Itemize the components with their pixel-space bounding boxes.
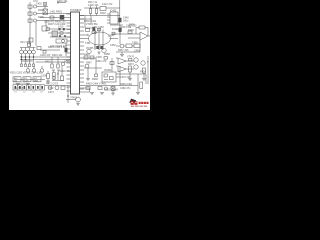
svg-text:C421 472: C421 472 bbox=[102, 3, 113, 6]
svg-text:T492: T492 bbox=[48, 87, 54, 90]
svg-text:R480 C481: R480 C481 bbox=[120, 83, 133, 86]
svg-text:L452 C453: L452 C453 bbox=[92, 26, 104, 29]
svg-text:C473: C473 bbox=[48, 91, 54, 94]
svg-text:R421: R421 bbox=[45, 61, 51, 64]
svg-text:R456: R456 bbox=[129, 24, 135, 27]
svg-text:R463 C464 VT465: R463 C464 VT465 bbox=[86, 83, 106, 86]
svg-text:C466: C466 bbox=[96, 56, 102, 59]
svg-text:R460: R460 bbox=[84, 54, 90, 57]
svg-text:C416 472: C416 472 bbox=[40, 54, 51, 57]
svg-text:C401 104: C401 104 bbox=[57, 0, 68, 3]
svg-text:C482 47u: C482 47u bbox=[120, 87, 131, 90]
svg-text:VR1 VR2: VR1 VR2 bbox=[20, 41, 31, 44]
svg-text:R418: R418 bbox=[100, 12, 106, 15]
svg-text:C420 104: C420 104 bbox=[88, 4, 99, 7]
svg-text:C418: C418 bbox=[64, 60, 70, 63]
svg-text:L401 R403: L401 R403 bbox=[50, 11, 62, 14]
svg-text:VD455: VD455 bbox=[86, 47, 94, 50]
svg-text:D1 D2 D3 D4 D5: D1 D2 D3 D4 D5 bbox=[13, 83, 29, 85]
svg-text:C483 VD484: C483 VD484 bbox=[104, 89, 118, 92]
svg-text:C455: C455 bbox=[132, 42, 138, 45]
svg-text:C422 47u: C422 47u bbox=[60, 70, 71, 73]
svg-text:1 2 3 4 5 6: 1 2 3 4 5 6 bbox=[14, 87, 26, 90]
svg-text:IC402: IC402 bbox=[112, 28, 119, 31]
svg-text:C461 472: C461 472 bbox=[96, 60, 107, 63]
svg-text:38M: 38M bbox=[34, 80, 38, 82]
svg-text:C417 R420 472: C417 R420 472 bbox=[50, 45, 67, 48]
svg-text:R301 C302 VD303 C304 L305: R301 C302 VD303 C304 L305 bbox=[10, 72, 43, 75]
svg-text:C476 104: C476 104 bbox=[120, 76, 131, 79]
svg-text:VT491: VT491 bbox=[70, 97, 78, 100]
svg-text:C452: C452 bbox=[110, 44, 116, 47]
svg-text:R458: R458 bbox=[104, 53, 110, 56]
svg-text:TA7698AP: TA7698AP bbox=[70, 9, 82, 12]
svg-text:L410: L410 bbox=[58, 25, 64, 28]
svg-text:C454: C454 bbox=[108, 35, 114, 38]
svg-text:R1 R2 R3: R1 R2 R3 bbox=[22, 60, 33, 63]
svg-text:R467: R467 bbox=[86, 62, 92, 65]
svg-text:C459: C459 bbox=[134, 50, 140, 53]
svg-text:R471 C472: R471 C472 bbox=[46, 83, 59, 86]
svg-text:R457 103: R457 103 bbox=[118, 49, 129, 52]
svg-text:VD462: VD462 bbox=[104, 69, 112, 72]
svg-text:R472: R472 bbox=[128, 63, 134, 66]
svg-text:6.5M: 6.5M bbox=[24, 80, 29, 82]
svg-text:IC402: IC402 bbox=[110, 9, 117, 12]
svg-text:R419 104: R419 104 bbox=[52, 54, 63, 57]
svg-text:R405: R405 bbox=[38, 16, 44, 19]
svg-text:R474: R474 bbox=[140, 71, 146, 74]
svg-text:R468: R468 bbox=[92, 78, 98, 81]
svg-text:C402: C402 bbox=[36, 3, 42, 6]
svg-text:T451: T451 bbox=[85, 42, 91, 45]
svg-text:R404: R404 bbox=[38, 9, 44, 12]
svg-text:C306: C306 bbox=[41, 74, 47, 77]
svg-text:R446: R446 bbox=[128, 29, 134, 32]
svg-text:VT470: VT470 bbox=[127, 56, 135, 59]
svg-text:T451: T451 bbox=[84, 34, 90, 37]
svg-text:100u: 100u bbox=[123, 20, 129, 23]
